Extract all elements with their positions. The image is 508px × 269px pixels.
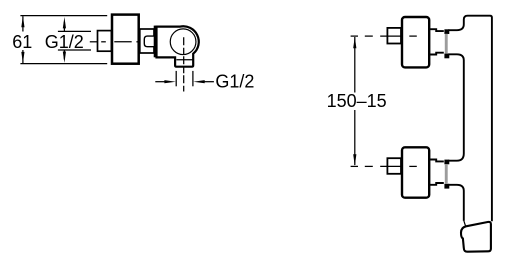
connector housing [140, 29, 154, 53]
extension line top (61 dim) [20, 15, 107, 17]
dimension G1/2 (inlet) underline [58, 49, 91, 51]
check-valve knob [144, 36, 154, 47]
dimension text 61 [12, 32, 32, 52]
outlet extension line left [175, 71, 177, 86]
svg-text:61: 61 [12, 32, 32, 52]
bottom collar [430, 160, 444, 185]
top joint corner marks [444, 29, 449, 58]
bottom union escutcheon [402, 147, 429, 197]
svg-text:G1/2: G1/2 [45, 32, 84, 52]
dimension text G1/2 inlet [45, 32, 84, 52]
top inlet centerline (dashed) [351, 35, 417, 37]
dimension text 150-15 [327, 91, 387, 111]
dimension text G1/2 outlet [215, 71, 254, 91]
outlet extension line right [192, 71, 194, 86]
foot joint diagonal [464, 221, 466, 226]
dimension G1/2 (inlet) overline [58, 30, 91, 32]
valve body + outlet silhouette [157, 26, 199, 66]
svg-text:150–15: 150–15 [327, 91, 387, 111]
bottom inlet centerline (dashed) [351, 165, 417, 167]
shower bar outline [448, 16, 492, 222]
bottom supply nipple [387, 158, 401, 174]
top union escutcheon [402, 17, 429, 67]
horizontal centerline (inlet axis, dashed) [90, 41, 141, 43]
dimension G1/2 (outlet) line + arrows [155, 80, 214, 83]
top collar [430, 29, 444, 54]
top joint gasket (gray) [445, 34, 448, 54]
top supply nipple [387, 28, 401, 44]
svg-text:G1/2: G1/2 [215, 71, 254, 91]
wall escutcheon body [112, 15, 139, 64]
bottom joint corner marks [444, 160, 449, 189]
body flange bar [154, 26, 158, 58]
dimension G1/2 (inlet) arrows [63, 17, 66, 63]
dimension 61 line + arrows [21, 16, 24, 63]
dimension 150-15 line + arrows [353, 37, 356, 166]
vertical centerline (outlet axis, dashed) [183, 37, 185, 91]
bottom joint gasket (gray) [445, 164, 448, 184]
thermostat cartridge circle [170, 29, 196, 55]
handset holder foot [461, 222, 491, 252]
extension line bottom (61 dim) [20, 63, 107, 65]
outlet shoulder line [176, 59, 192, 61]
inlet union nut [98, 31, 112, 52]
